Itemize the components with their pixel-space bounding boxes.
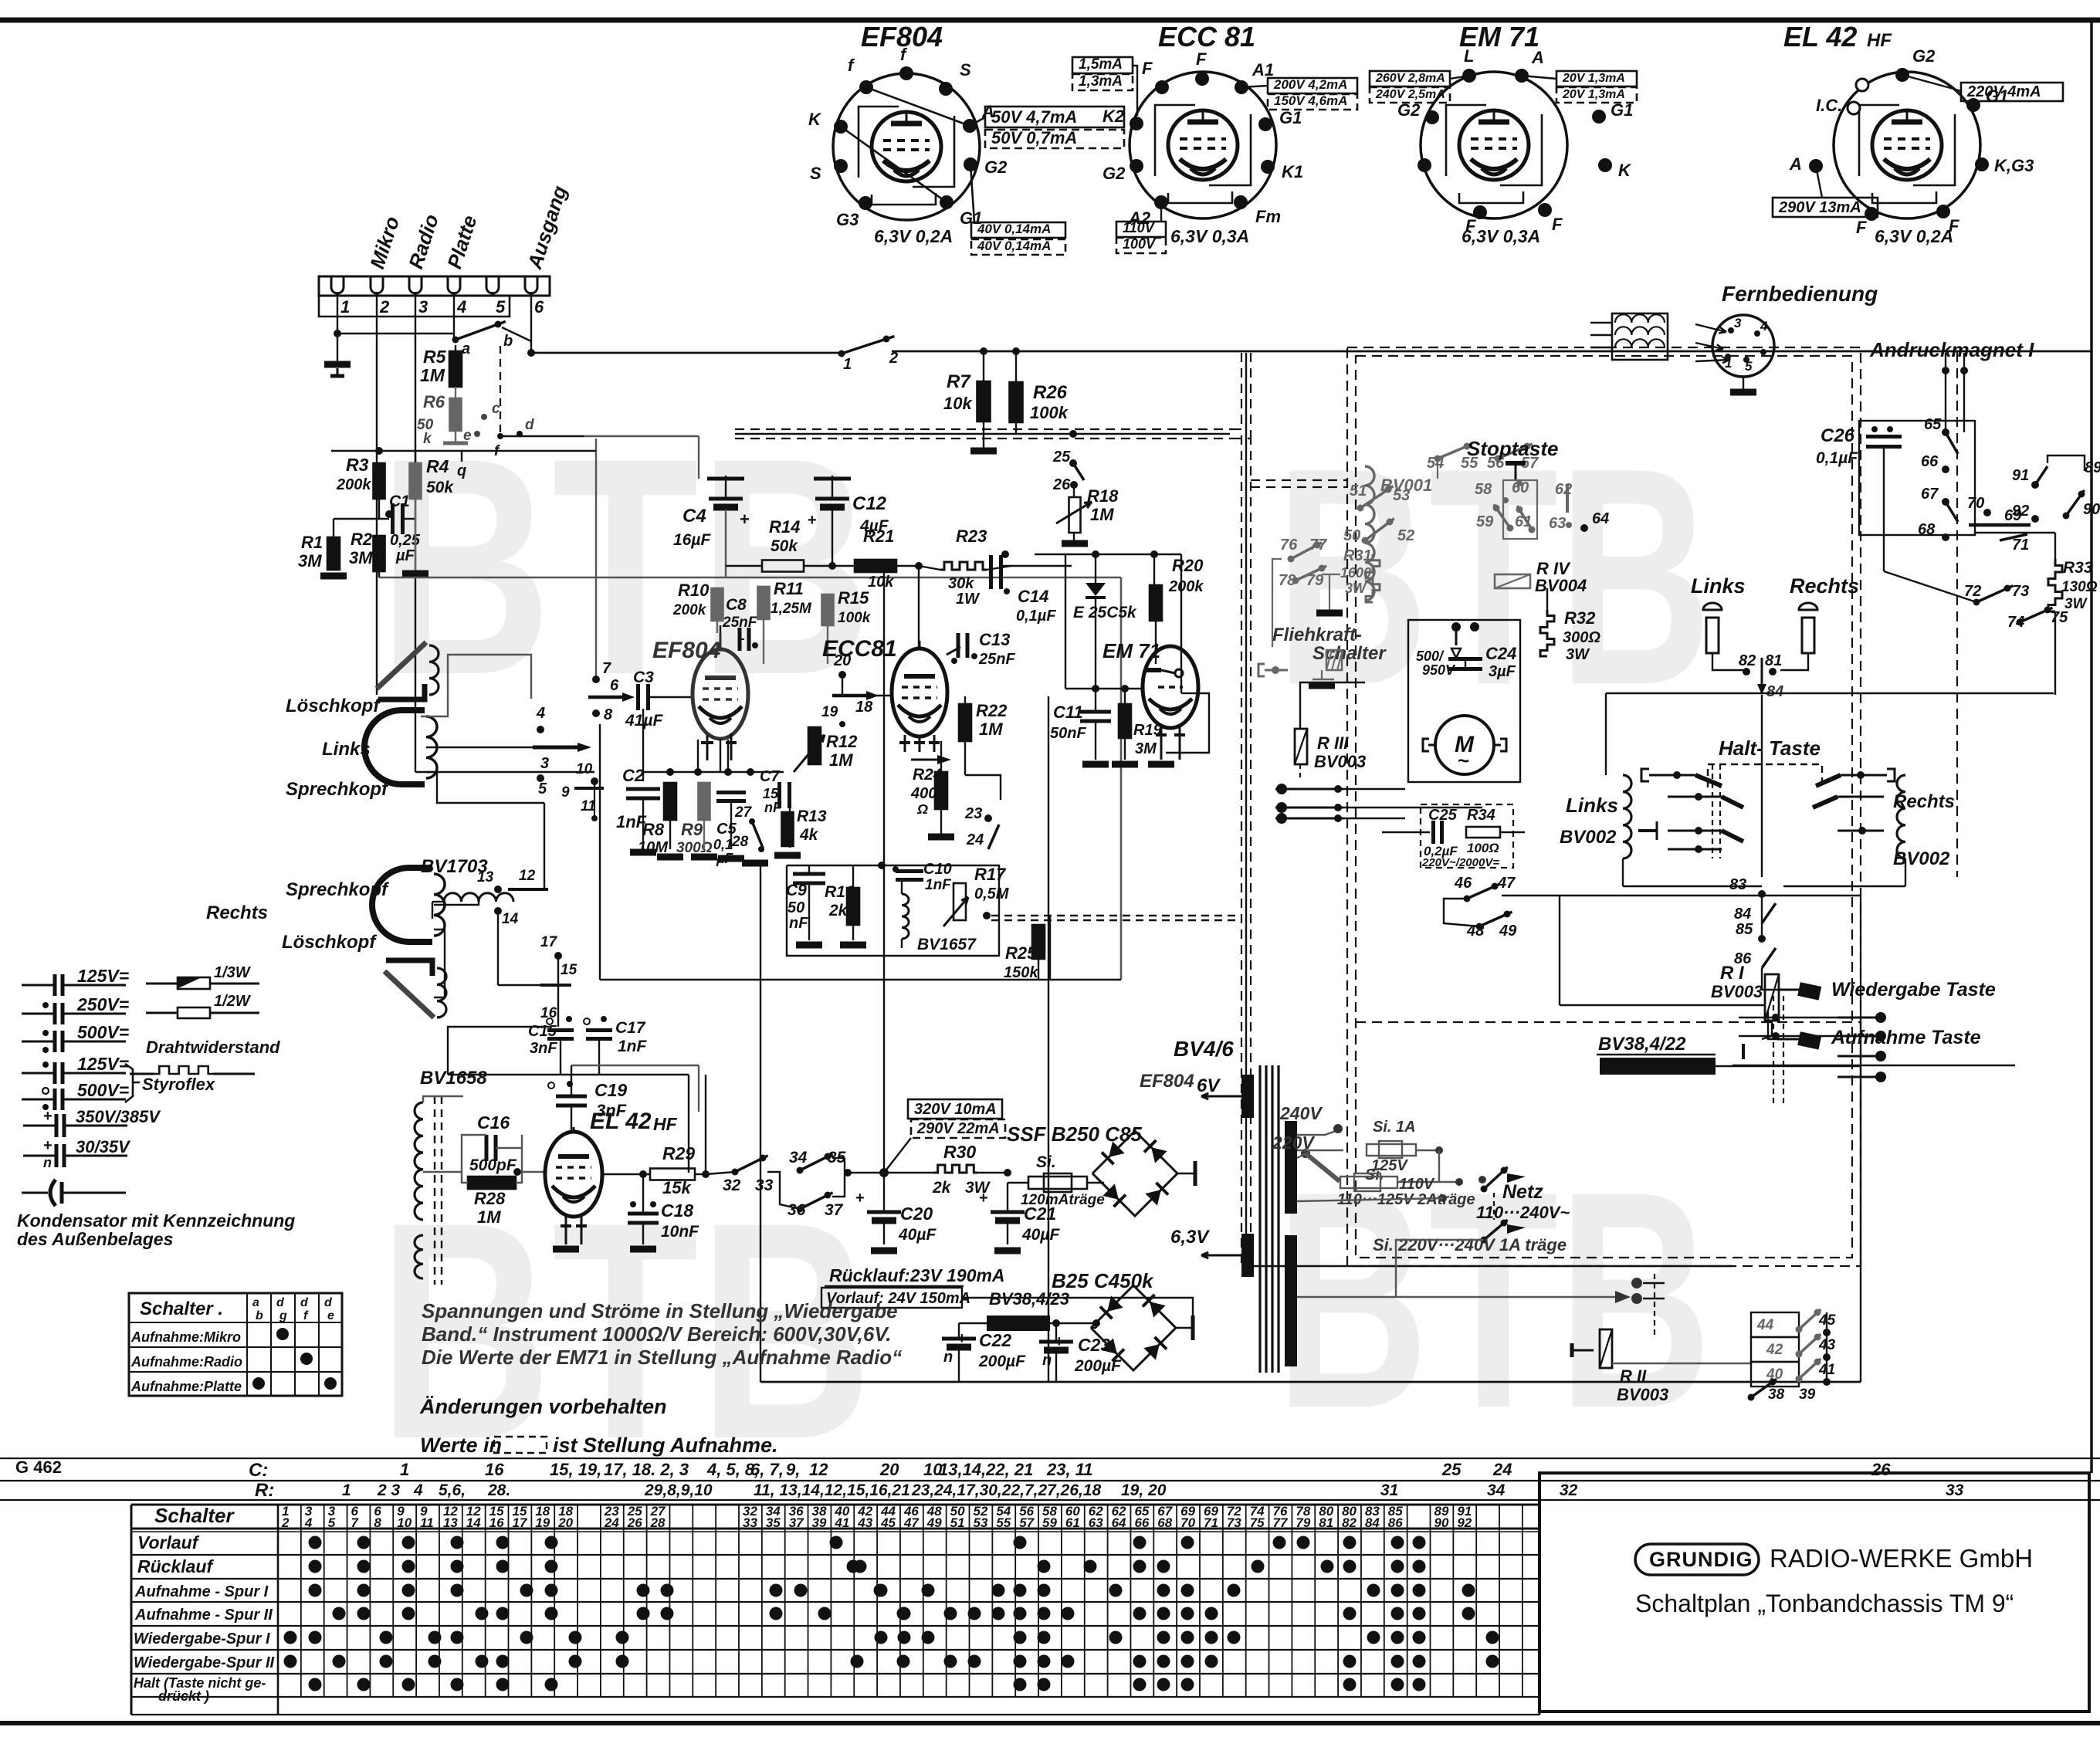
svg-text:R21: R21 <box>863 527 894 546</box>
motor box <box>1408 620 1520 782</box>
svg-text:1/2W: 1/2W <box>214 993 252 1010</box>
svg-text:63: 63 <box>1549 515 1566 532</box>
svg-text:50: 50 <box>1343 527 1360 544</box>
transformer BV1658 <box>415 1102 423 1220</box>
wire junction row y584 <box>375 447 383 455</box>
svg-text:6: 6 <box>534 297 544 317</box>
svg-text:150k: 150k <box>1004 964 1038 981</box>
svg-text:32: 32 <box>723 1177 741 1194</box>
svg-text:320V 10mA: 320V 10mA <box>914 1101 997 1118</box>
svg-text:38: 38 <box>1768 1387 1785 1403</box>
svg-text:6,3V: 6,3V <box>1170 1227 1210 1248</box>
svg-text:29,8,9,10: 29,8,9,10 <box>644 1481 713 1499</box>
potentiometer R18 1M <box>1069 497 1081 533</box>
wire pin6 Ausgang down <box>530 296 532 353</box>
svg-text:82: 82 <box>1739 652 1756 669</box>
svg-text:76: 76 <box>1280 537 1298 554</box>
svg-text:290V 13mA: 290V 13mA <box>1778 199 1861 216</box>
EL42 pins bottom <box>565 1215 567 1244</box>
contact c <box>481 414 487 420</box>
svg-text:nF: nF <box>789 915 808 932</box>
svg-text:100k: 100k <box>838 610 872 626</box>
svg-text:BV002: BV002 <box>1560 827 1617 848</box>
svg-text:R17: R17 <box>974 865 1007 884</box>
svg-text:GRUNDIG: GRUNDIG <box>1649 1548 1753 1571</box>
resistor R19 3M <box>1119 704 1131 738</box>
svg-text:BV003: BV003 <box>1617 1385 1668 1404</box>
svg-text:130Ω: 130Ω <box>2061 579 2098 595</box>
svg-text:84: 84 <box>1365 1515 1380 1530</box>
svg-text:3M: 3M <box>298 551 322 571</box>
svg-text:G1: G1 <box>1279 108 1302 127</box>
svg-text:Si. 1A: Si. 1A <box>1373 1119 1416 1136</box>
svg-text:R12: R12 <box>826 732 858 751</box>
svg-text:73: 73 <box>1227 1515 1241 1530</box>
svg-text:F: F <box>1856 218 1867 237</box>
svg-text:BV38,4/22: BV38,4/22 <box>1598 1034 1686 1055</box>
svg-text:+: + <box>808 512 817 529</box>
switch 1-2 <box>838 350 845 357</box>
svg-text:250V=: 250V= <box>76 994 129 1014</box>
svg-text:EF804: EF804 <box>1140 1071 1194 1092</box>
dashed link at RII <box>1654 1274 1655 1336</box>
capacitor C5 0,1uF <box>716 791 746 794</box>
svg-text:R15: R15 <box>838 588 869 608</box>
dashed bottom of control box <box>1356 1021 1861 1023</box>
svg-text:C7: C7 <box>760 768 780 785</box>
svg-text:50nF: 50nF <box>1050 725 1086 742</box>
wire EF804 grid top cap <box>720 625 721 633</box>
legend Kondensator Aussenbelag <box>22 1192 48 1194</box>
svg-text:1: 1 <box>400 1460 409 1479</box>
capacitor C18 10nF <box>630 1201 636 1207</box>
node 20 <box>838 671 846 679</box>
table R row line <box>0 1480 2100 1481</box>
svg-text:C18: C18 <box>661 1200 693 1221</box>
ladder dashed verticals <box>1773 996 1774 1104</box>
resistor R8 10M <box>664 783 676 820</box>
svg-text:950V: 950V <box>1422 662 1456 678</box>
Fliehkraft contact <box>1258 664 1265 676</box>
svg-text:63: 63 <box>1089 1515 1103 1530</box>
contact 14 <box>494 907 502 915</box>
capacitor C24 3uF <box>1448 657 1482 661</box>
svg-text:40µF: 40µF <box>898 1226 937 1244</box>
svg-text:72: 72 <box>1964 583 1981 600</box>
capacitor C21 40uF <box>991 1211 1025 1214</box>
svg-text:Stoptaste: Stoptaste <box>1467 437 1558 460</box>
table C row line <box>0 1458 2100 1459</box>
svg-text:15: 15 <box>561 962 577 978</box>
capacitor C20 40uF <box>867 1211 901 1214</box>
svg-text:41µF: 41µF <box>625 712 663 730</box>
relay RII BV003 <box>1600 1329 1612 1368</box>
tube EL42 (stage) <box>545 1132 602 1217</box>
svg-text:drückt ): drückt ) <box>158 1688 209 1704</box>
svg-text:1,3mA: 1,3mA <box>1079 73 1123 90</box>
wire pin2 Mikro down <box>376 296 378 695</box>
ECC81 anode voltage box 110V <box>1116 222 1166 237</box>
capacitor C9 50nF <box>793 872 825 876</box>
resistor R33 130 3W <box>2048 559 2062 611</box>
svg-text:1: 1 <box>1725 356 1732 371</box>
svg-text:55: 55 <box>996 1515 1011 1530</box>
bus rows to right contacts <box>1732 1065 2015 1066</box>
svg-text:65: 65 <box>1924 416 1942 433</box>
svg-text:BV4/6: BV4/6 <box>1174 1037 1234 1061</box>
svg-text:16µF: 16µF <box>673 531 711 549</box>
head wiring <box>421 655 531 716</box>
svg-text:R III: R III <box>1317 733 1349 753</box>
long gray bus to EF804 <box>379 577 1121 579</box>
svg-text:R26: R26 <box>1033 382 1068 403</box>
svg-text:Si. 220V···240V 1A träge: Si. 220V···240V 1A träge <box>1373 1235 1567 1255</box>
record head rechts <box>372 868 432 942</box>
svg-text:C2: C2 <box>622 766 645 785</box>
svg-text:10k: 10k <box>943 394 973 413</box>
svg-text:18: 18 <box>855 699 873 716</box>
svg-text:Aufnahme:Radio: Aufnahme:Radio <box>130 1354 242 1370</box>
erase head links <box>377 642 426 689</box>
wire RI to bus <box>1762 1021 1772 1039</box>
svg-text:EL 42: EL 42 <box>590 1109 652 1134</box>
svg-text:BV003: BV003 <box>1711 982 1763 1001</box>
wire bus 718 corner to EM71 loop <box>1180 554 1182 693</box>
wire row f-d <box>500 435 584 437</box>
svg-text:e: e <box>327 1309 334 1322</box>
wire R2 R4 bottom to gray bus <box>378 571 380 577</box>
svg-text:62: 62 <box>1555 481 1572 498</box>
svg-text:1nF: 1nF <box>925 877 952 893</box>
motor M <box>1435 716 1494 774</box>
wire C15 C17 to bottom rail <box>560 1041 561 1075</box>
svg-text:C14: C14 <box>1018 587 1048 606</box>
svg-text:24: 24 <box>1492 1460 1512 1479</box>
small switch position table <box>129 1293 342 1396</box>
resistor R32 300 3W <box>1540 610 1554 656</box>
small table dots <box>276 1328 289 1340</box>
potentiometer R17 0,5M <box>953 883 966 920</box>
svg-text:n: n <box>1042 1352 1052 1369</box>
svg-text:b: b <box>503 333 513 350</box>
svg-text:83: 83 <box>1729 876 1746 893</box>
svg-text:F: F <box>1142 59 1153 78</box>
border top line <box>0 18 2100 23</box>
resistor R28 1M <box>468 1177 516 1189</box>
svg-text:25nF: 25nF <box>978 651 1015 668</box>
svg-text:10nF: 10nF <box>661 1223 699 1241</box>
svg-text:C9: C9 <box>786 882 807 899</box>
capacitor C3 41uF <box>636 684 640 710</box>
svg-text:R I: R I <box>1720 963 1745 984</box>
contact 6 arrow <box>588 696 622 699</box>
wires to contact field right <box>1860 896 1861 1022</box>
svg-text:5,6,: 5,6, <box>439 1481 466 1499</box>
RII tee <box>1570 1343 1574 1357</box>
svg-text:d: d <box>525 417 534 433</box>
svg-text:64: 64 <box>1592 510 1609 527</box>
svg-text:6V: 6V <box>1197 1075 1221 1096</box>
svg-text:4: 4 <box>304 1515 313 1530</box>
svg-text:+: + <box>43 1137 52 1154</box>
legend resistor 1/2W <box>146 1012 259 1014</box>
svg-text:82: 82 <box>1342 1515 1357 1530</box>
wire top bus to right border <box>531 352 842 354</box>
wire head row to EL42 grid <box>571 1065 699 1066</box>
svg-text:28: 28 <box>650 1515 666 1530</box>
svg-text:13,14,22, 21: 13,14,22, 21 <box>939 1460 1033 1479</box>
svg-text:77: 77 <box>1309 537 1327 554</box>
svg-text:Sprechkopf: Sprechkopf <box>286 779 389 800</box>
svg-text:3: 3 <box>418 297 428 317</box>
svg-text:6,3V 0,2A: 6,3V 0,2A <box>1875 226 1953 246</box>
EM71 bottom pins <box>1160 726 1163 760</box>
capacitor C8 25nF <box>738 628 742 651</box>
svg-text:d: d <box>276 1296 285 1309</box>
svg-text:C26: C26 <box>1821 425 1855 446</box>
svg-text:K: K <box>1618 161 1632 180</box>
choke BV38,4/22 <box>1600 1058 1716 1075</box>
svg-text:500V=: 500V= <box>77 1080 129 1100</box>
wire 15 to C15 C17 row <box>557 956 559 1027</box>
svg-text:37: 37 <box>789 1515 804 1530</box>
svg-text:19: 19 <box>821 704 838 720</box>
svg-text:53: 53 <box>974 1515 988 1530</box>
svg-text:K: K <box>808 110 822 129</box>
svg-text:Netz: Netz <box>1502 1181 1543 1203</box>
wire 65-68 box to R33 column <box>1975 532 2055 533</box>
svg-text:19: 19 <box>535 1515 550 1530</box>
legend capacitor 125V= <box>22 984 55 987</box>
svg-text:12: 12 <box>809 1460 828 1479</box>
svg-text:3: 3 <box>1734 316 1742 330</box>
svg-text:0,5M: 0,5M <box>974 885 1010 902</box>
svg-text:EL 42: EL 42 <box>1783 21 1857 52</box>
wire contact 14 to 15 row <box>497 911 499 985</box>
svg-text:1nF: 1nF <box>618 1038 648 1055</box>
capacitor C4 16uF <box>725 476 727 498</box>
resistor R30 2k 3W <box>934 1165 977 1173</box>
svg-text:R3: R3 <box>346 455 369 475</box>
EF804 pin chords <box>866 87 970 126</box>
svg-text:R4: R4 <box>426 456 449 476</box>
switch 65 66 67 68 column <box>1859 421 1975 535</box>
svg-text:G2: G2 <box>1102 164 1126 183</box>
capacitor C15 3nF <box>547 1018 553 1024</box>
svg-text:R18: R18 <box>1087 486 1119 506</box>
motor capacitor hanger <box>1455 630 1458 645</box>
svg-text:4: 4 <box>413 1481 423 1499</box>
switch lever 220V to fuse <box>1306 1153 1340 1181</box>
erase head rechts <box>384 971 434 1018</box>
EF804 screen voltage box 40V 0,14mA (Aufnahme) <box>971 239 1065 255</box>
svg-text:k: k <box>423 431 432 447</box>
svg-text:50V 0,7mA: 50V 0,7mA <box>991 128 1077 147</box>
EM71 voltage box 20V 1,3mA <box>1556 71 1637 86</box>
svg-text:Drahtwiderstand: Drahtwiderstand <box>146 1038 280 1057</box>
svg-text:R29: R29 <box>662 1143 695 1163</box>
svg-text:59: 59 <box>1042 1515 1057 1530</box>
ECC81 cathode current box 1,5mA <box>1072 57 1133 73</box>
svg-text:220V 4mA: 220V 4mA <box>1966 83 2041 100</box>
svg-text:R22: R22 <box>976 701 1008 720</box>
svg-text:F: F <box>1196 49 1207 69</box>
svg-text:G3: G3 <box>836 210 859 229</box>
Links BV002 contacts <box>1641 769 1649 781</box>
svg-text:42: 42 <box>1766 1342 1783 1358</box>
svg-text:1,25M: 1,25M <box>771 601 812 617</box>
switch a-b <box>452 337 459 344</box>
svg-text:39: 39 <box>1799 1387 1816 1403</box>
tube ECC81 <box>892 648 947 736</box>
svg-text:41: 41 <box>834 1515 849 1530</box>
svg-text:10: 10 <box>397 1515 412 1530</box>
svg-text:6, 7,: 6, 7, <box>750 1460 784 1479</box>
contact 26 <box>1070 481 1078 489</box>
wires EF804 anode <box>716 621 718 633</box>
legend resistor 1/3W <box>146 983 259 985</box>
svg-text:µF: µF <box>395 547 415 564</box>
svg-text:C17: C17 <box>615 1019 646 1037</box>
svg-text:Schaltplan „Tonbandchassis TM: Schaltplan „Tonbandchassis TM 9“ <box>1635 1590 2014 1617</box>
svg-text:220V~/2000V=: 220V~/2000V= <box>1421 856 1499 869</box>
svg-text:Rechts: Rechts <box>206 902 268 923</box>
svg-text:3W: 3W <box>1345 581 1367 596</box>
svg-text:90: 90 <box>1434 1515 1449 1530</box>
relay RIII BV003 <box>1295 729 1307 764</box>
wire pin1 to ground <box>337 296 338 334</box>
Rechts plug <box>1799 603 1817 610</box>
resistor R5 1M <box>455 345 456 351</box>
svg-text:+: + <box>979 1190 988 1207</box>
svg-text:R2: R2 <box>351 530 373 549</box>
svg-text:17, 18. 2, 3: 17, 18. 2, 3 <box>604 1460 689 1479</box>
svg-text:R7: R7 <box>947 371 971 392</box>
svg-text:66: 66 <box>1134 1515 1149 1530</box>
bridge rectifier B25 C450k <box>1091 1285 1176 1370</box>
svg-text:0,1µF: 0,1µF <box>1816 449 1858 467</box>
svg-text:51: 51 <box>950 1515 965 1530</box>
svg-text:44: 44 <box>1756 1317 1774 1333</box>
svg-text:35: 35 <box>766 1515 781 1530</box>
potentiometer R12 1M <box>808 727 821 764</box>
svg-text:F: F <box>1552 215 1563 234</box>
svg-text:28.: 28. <box>487 1481 510 1499</box>
svg-text:Schalter: Schalter <box>1312 643 1387 664</box>
resistor R26 100k <box>1015 351 1017 382</box>
svg-text:Die Werte der EM71 in Stellung: Die Werte der EM71 in Stellung „Aufnahme… <box>422 1346 902 1369</box>
svg-text:69: 69 <box>2004 507 2022 524</box>
title block box <box>1539 1473 2089 1712</box>
svg-text:11: 11 <box>420 1515 434 1530</box>
primary winding <box>1285 1121 1297 1214</box>
svg-text:25: 25 <box>1052 449 1071 466</box>
svg-text:Rücklauf: Rücklauf <box>137 1556 214 1576</box>
capacitor C25 R34 dashed box <box>1421 804 1513 868</box>
capacitor C19 3nF <box>548 1082 554 1089</box>
svg-text:G 462: G 462 <box>15 1458 62 1477</box>
svg-text:R25: R25 <box>1005 943 1037 963</box>
svg-text:1W: 1W <box>956 591 981 608</box>
svg-text:16: 16 <box>485 1460 504 1479</box>
svg-text:7: 7 <box>602 660 611 677</box>
svg-text:BV001: BV001 <box>1380 476 1432 495</box>
choke BV38,4/23 <box>987 1315 1050 1331</box>
small bar contact <box>1742 1044 1745 1059</box>
svg-text:nF: nF <box>764 800 782 815</box>
svg-text:+: + <box>740 510 750 529</box>
potentiometer R6 50k <box>455 387 456 398</box>
EL42 voltage box 220V 4mA <box>1961 83 2063 101</box>
svg-text:24: 24 <box>966 831 984 848</box>
svg-text:70: 70 <box>1967 495 1984 512</box>
svg-text:10: 10 <box>576 761 593 777</box>
resistor R25 150k <box>1032 925 1045 959</box>
svg-text:1/3W: 1/3W <box>214 964 252 981</box>
svg-text:23,24,17,30,22,7,27,26,18: 23,24,17,30,22,7,27,26,18 <box>911 1481 1102 1499</box>
svg-text:e: e <box>463 428 472 444</box>
contact 4 <box>537 726 544 733</box>
svg-text:L: L <box>1464 46 1474 66</box>
svg-text:C12: C12 <box>852 493 887 514</box>
resistor R23 30k 1W <box>940 562 987 570</box>
capacitor C14 0,1uF <box>989 555 993 589</box>
svg-text:q: q <box>457 462 466 479</box>
svg-text:40V 0,14mA: 40V 0,14mA <box>977 222 1051 236</box>
svg-text:4: 4 <box>1760 319 1768 334</box>
svg-text:1M: 1M <box>477 1207 501 1227</box>
wire R22 to 23 <box>964 741 966 775</box>
svg-text:Links: Links <box>1691 574 1746 598</box>
contact 18 arrow <box>832 694 866 698</box>
legend capacitor 500V= <box>22 1041 55 1043</box>
svg-text:66: 66 <box>1921 453 1939 470</box>
svg-text:46: 46 <box>1454 875 1472 892</box>
wire pin junction bus <box>337 333 454 334</box>
svg-text:Vorlauf: Vorlauf <box>137 1532 200 1553</box>
svg-text:200k: 200k <box>336 476 371 493</box>
svg-text:5: 5 <box>328 1515 336 1530</box>
svg-text:71: 71 <box>2012 537 2029 554</box>
svg-text:A: A <box>1531 48 1544 67</box>
svg-text:40µF: 40µF <box>1021 1226 1060 1244</box>
svg-text:A1: A1 <box>1252 60 1274 80</box>
resistor R29 15k <box>650 1169 695 1180</box>
svg-text:E 25C5k: E 25C5k <box>1073 604 1137 621</box>
svg-text:85: 85 <box>1736 921 1753 938</box>
svg-text:13: 13 <box>477 869 494 885</box>
svg-text:15: 15 <box>763 786 779 801</box>
resistor R31 1600 3W <box>1366 554 1380 602</box>
EF804 pins bottom <box>706 735 709 760</box>
contact 3 arrow <box>533 746 577 750</box>
Wiedergabe Taste key <box>1777 989 1799 991</box>
bottom heavy line <box>0 1721 2100 1725</box>
svg-text:3µF: 3µF <box>1489 663 1516 680</box>
svg-text:R32: R32 <box>1564 608 1596 628</box>
svg-text:68: 68 <box>1157 1515 1172 1530</box>
svg-text:BV1658: BV1658 <box>420 1068 487 1089</box>
svg-text:26: 26 <box>627 1515 642 1530</box>
svg-text:20V 1,3mA: 20V 1,3mA <box>1562 72 1625 85</box>
svg-text:90: 90 <box>2083 501 2100 518</box>
svg-text:0,1µF: 0,1µF <box>1016 608 1056 625</box>
svg-text:R:: R: <box>255 1480 274 1501</box>
svg-text:C1: C1 <box>389 493 410 510</box>
ECC81 anode voltage box 100V (Aufnahme) <box>1116 238 1166 253</box>
svg-text:150V 4,6mA: 150V 4,6mA <box>1274 93 1347 108</box>
svg-text:HF: HF <box>1867 30 1892 51</box>
